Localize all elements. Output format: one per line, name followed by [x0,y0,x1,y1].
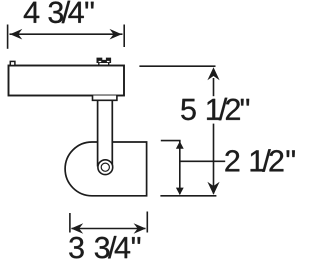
bottom extension line shared by height dimensions [160,195,216,197]
dim text 5 1/2" [181,98,249,120]
height dimension line lower segment [213,124,215,194]
stem (yoke arm) [98,100,113,166]
head height small down arrowhead [176,188,184,195]
width dimension right arrowhead [110,29,122,40]
height dimension up arrowhead [207,67,219,80]
lamp head body [65,142,147,196]
head width left arrowhead [71,223,83,234]
track adapter body [9,66,125,96]
dim text 3 3/4" [69,236,140,258]
latch clip top-right of track body [97,58,112,63]
width dimension right extension bar [123,25,125,48]
head height dimension line [179,141,181,195]
height dimension down arrowhead [207,182,219,195]
head width left extension bar [69,213,71,233]
mounting flange under track body [93,96,117,101]
head height top extension line [161,140,181,142]
height dimension top extension line [139,65,215,67]
pivot knuckle outer circle [98,160,113,175]
latch clip left leg [98,63,100,66]
latch clip inner white specks [99,61,102,62]
width dimension left extension bar [7,25,9,49]
width dimension left arrowhead [10,29,22,40]
head width right extension bar [146,212,148,233]
height dimension line upper segment [213,78,215,96]
small tab top-left of track body [10,61,15,65]
dim text 4 3/4" [24,1,94,23]
dim text 2 1/2" [225,149,294,171]
head width right arrowhead [134,223,146,234]
latch clip right leg [108,63,110,66]
head width dimension line [72,228,146,230]
pivot knuckle inner circle [101,163,109,171]
head height small up arrowhead [176,141,184,148]
head height leader line [180,160,225,162]
width dimension line [10,33,123,35]
